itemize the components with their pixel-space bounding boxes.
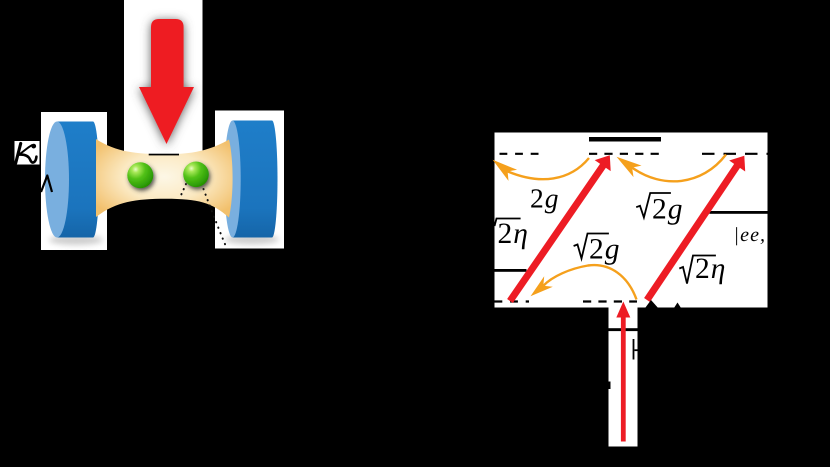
rabi coupling arrow sqrt2g bottom <box>543 265 636 299</box>
right mirror face <box>224 121 240 238</box>
level lower-left <box>495 269 527 272</box>
waist marker line <box>149 154 179 156</box>
svg-text:2g: 2g <box>652 193 684 225</box>
right mirror shadow <box>225 235 279 245</box>
pump arrow eta <box>616 302 630 442</box>
level ee <box>710 211 768 214</box>
dotted guide right <box>202 184 228 250</box>
left mirror white backdrop <box>41 112 107 250</box>
atom 1 <box>127 162 153 188</box>
red transition arrow right <box>647 165 738 301</box>
cropped ket label <box>633 339 638 360</box>
dashed level top-left <box>500 153 539 155</box>
left mirror face <box>45 122 69 238</box>
stray glyph fragment <box>609 382 611 390</box>
svg-text:|ee,: |ee, <box>734 224 767 246</box>
dashed level top-center <box>589 153 661 155</box>
dashed level bottom-left <box>495 300 530 302</box>
red transition arrow left <box>510 165 604 301</box>
rabi coupling arrow 2g <box>508 158 589 179</box>
atom 2 <box>183 162 209 188</box>
svg-text:2g: 2g <box>530 183 560 214</box>
pump channel backdrop <box>609 305 638 447</box>
left mirror body <box>57 122 99 238</box>
cavity top level <box>589 137 661 142</box>
left mirror shadow <box>49 235 103 245</box>
dashed level bottom-center <box>583 300 637 302</box>
dashed level top-right <box>702 153 768 155</box>
label sqrt2g center <box>574 234 621 266</box>
label sqrt2g top right <box>636 193 683 225</box>
right mirror white backdrop <box>215 111 284 249</box>
svg-text:2η: 2η <box>498 218 529 250</box>
delta marker 2 <box>673 303 682 310</box>
svg-text:2η: 2η <box>695 253 726 285</box>
label sqrt2eta right <box>679 253 726 285</box>
decay squiggle <box>41 176 52 193</box>
pump arrow <box>139 19 194 144</box>
pump beam white backdrop <box>124 0 203 157</box>
cavity mode <box>96 139 233 218</box>
pump level marker <box>609 328 638 331</box>
dotted guide left <box>179 184 186 199</box>
label sqrt2eta left <box>495 218 529 250</box>
delta marker 1 <box>644 300 660 310</box>
rabi coupling arrow sqrt2g top <box>632 155 726 182</box>
kappa symbol <box>16 144 37 164</box>
svg-text:2g: 2g <box>589 234 621 266</box>
level diagram backdrop <box>495 133 768 308</box>
right mirror body <box>233 121 278 238</box>
kappa label white backdrop <box>15 141 40 165</box>
